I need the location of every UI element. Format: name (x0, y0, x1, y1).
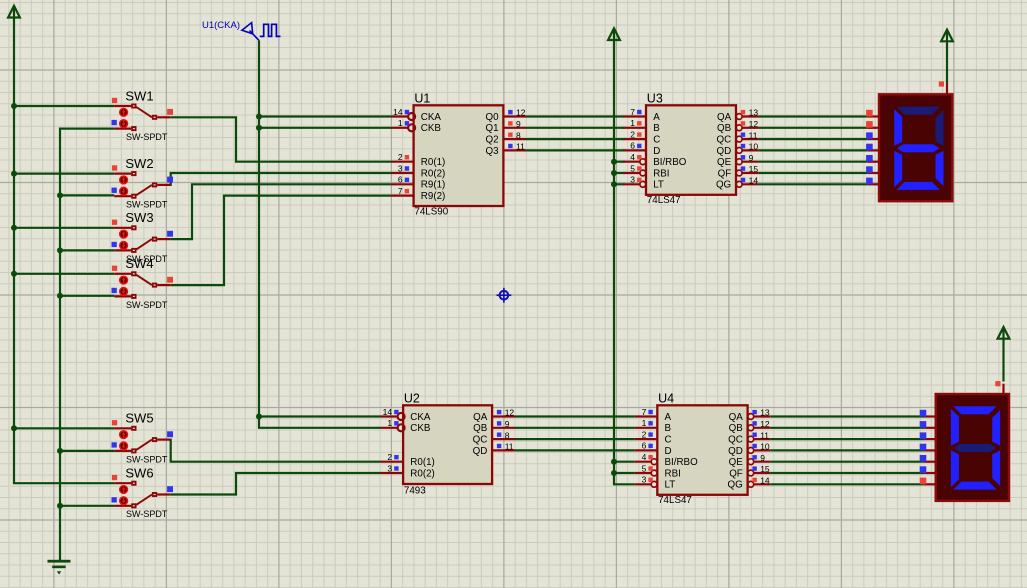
svg-text:SW5: SW5 (125, 411, 153, 426)
svg-text:10: 10 (749, 142, 759, 152)
DS2 segment pin b (920, 421, 936, 428)
U4 pin 14 (QG) right (728, 476, 771, 491)
svg-text:Q3: Q3 (486, 146, 500, 157)
svg-text:QG: QG (716, 180, 731, 191)
svg-text:14: 14 (749, 176, 759, 186)
SW1 label (125, 88, 153, 103)
svg-text:5: 5 (642, 463, 647, 473)
svg-text:U1: U1 (414, 91, 430, 105)
svg-text:1: 1 (642, 418, 647, 428)
U3 pin 1 (B) left (623, 118, 660, 134)
U2 value label 7493 (404, 486, 426, 497)
svg-text:QB: QB (473, 423, 488, 434)
SW1 type label SW-SPDT (126, 132, 168, 142)
junction dots on ground rail (57, 192, 63, 508)
wire: U4 QC to display DS2 (770, 438, 924, 440)
svg-text:12: 12 (760, 419, 770, 429)
svg-text:10: 10 (760, 442, 770, 452)
junction dots on clock net (256, 114, 262, 420)
U1 pin 7 (R9(2)) left (391, 186, 445, 202)
wire: ground to SW3 bottom contact (60, 249, 114, 251)
IC U1 (74LS90) body (414, 105, 504, 206)
wire: U3 QD to display DS1 (759, 149, 868, 151)
svg-text:14: 14 (760, 476, 770, 486)
svg-text:R9(1): R9(1) (421, 180, 446, 191)
SW6 type label SW-SPDT (126, 509, 168, 519)
power symbol VCC arrow (left rail) (8, 6, 20, 18)
svg-text:U2: U2 (404, 391, 420, 405)
U4 pin 2 (C) left (635, 429, 672, 445)
svg-text:R0(2): R0(2) (410, 468, 435, 479)
U3 pin 14 (QG) right (716, 176, 759, 191)
wire: power to SW5 top contact (14, 427, 114, 429)
wire: power to SW3 top contact (14, 227, 114, 229)
U1 pin 14 (CKA) left (391, 107, 441, 123)
svg-text:QE: QE (717, 157, 732, 168)
DS1 segment pin d (866, 144, 879, 151)
U4 pin 7 (A) left (635, 407, 672, 423)
svg-text:14: 14 (383, 407, 393, 417)
svg-text:A: A (665, 412, 672, 423)
SW5 actuator buttons (120, 431, 128, 450)
svg-text:2: 2 (642, 429, 647, 439)
svg-text:7: 7 (398, 186, 403, 196)
svg-text:C: C (665, 435, 672, 446)
U3 value label 74LS47 (647, 195, 681, 206)
svg-text:12: 12 (516, 108, 526, 118)
wire: U1 Q3-D to U3 (526, 149, 624, 151)
clock source wedge symbol (242, 23, 259, 41)
svg-text:74LS90: 74LS90 (414, 207, 448, 218)
svg-text:14: 14 (393, 107, 403, 117)
U3 pin 11 (QC) right (716, 130, 758, 145)
SW4 logic state markers (112, 266, 174, 293)
svg-text:9: 9 (749, 153, 754, 163)
svg-text:B: B (665, 423, 672, 434)
svg-text:SW-SPDT: SW-SPDT (126, 200, 168, 210)
SW3 actuator buttons (120, 230, 128, 249)
wire: ground to SW2 bottom contact (60, 194, 114, 196)
svg-text:QA: QA (717, 112, 732, 123)
svg-text:A: A (653, 112, 660, 123)
svg-text:3: 3 (630, 175, 635, 185)
U4 pin 1 (B) left (635, 418, 672, 434)
svg-text:U1(CKA): U1(CKA) (202, 20, 240, 31)
U3 pin 3 (LT) left (623, 175, 664, 191)
svg-text:1: 1 (398, 118, 403, 128)
SW6 logic state markers (112, 475, 174, 503)
svg-text:1: 1 (387, 418, 392, 428)
wire: SW1 pole to U1 R0(1) (170, 117, 391, 161)
U4 pin 3 (LT) left (635, 475, 676, 491)
wire: U2 QB-B to U4 (515, 427, 635, 429)
DS2 common anode pin (995, 381, 1003, 394)
svg-text:QG: QG (728, 480, 743, 491)
SW5 label (125, 411, 153, 426)
DS1 segment pin b (866, 121, 879, 128)
svg-text:11: 11 (749, 130, 758, 140)
U4 pin 13 (QA) right (729, 408, 771, 423)
svg-text:5: 5 (630, 163, 635, 173)
svg-text:BI/RBO: BI/RBO (653, 157, 687, 168)
svg-text:74LS47: 74LS47 (647, 195, 681, 206)
DS2 segment pin e (920, 455, 936, 462)
wire: ground to SW6 bottom contact (60, 505, 114, 507)
wire: U4 QF to display DS2 (770, 472, 924, 474)
svg-text:QB: QB (717, 123, 732, 134)
U3 pin 4 (BI/RBO) left (623, 152, 686, 168)
wire: clock to U1 CKA (259, 115, 391, 117)
svg-text:11: 11 (505, 442, 514, 452)
U3 pin 5 (RBI) left (623, 163, 669, 179)
svg-text:13: 13 (749, 108, 759, 118)
clock source square-wave glyph (260, 24, 281, 36)
DS2 digit segments (951, 406, 1000, 489)
svg-text:4: 4 (642, 452, 647, 462)
power symbol VCC arrow (display DS2) (998, 327, 1010, 339)
svg-text:SW2: SW2 (125, 156, 153, 171)
U1 pin 9 (Q1) right (486, 119, 526, 134)
svg-text:9: 9 (760, 453, 765, 463)
wire: ground to SW4 bottom contact (60, 295, 114, 297)
U4 pin 4 (BI/RBO) left (635, 452, 698, 468)
wire: power to DS1 common (946, 41, 948, 84)
power symbol VCC arrow (middle rail) (608, 28, 620, 40)
U4 value label 74LS47 (658, 495, 692, 506)
U3 pin 10 (QD) right (716, 142, 758, 157)
IC U3 (74LS47) body (646, 105, 736, 195)
svg-text:15: 15 (760, 464, 770, 474)
IC U2 (7493) body (403, 405, 492, 484)
svg-text:9: 9 (516, 119, 521, 129)
svg-text:2: 2 (630, 129, 635, 139)
svg-text:2: 2 (398, 152, 403, 162)
wire: U3 QC to display DS1 (759, 138, 868, 140)
U1 pin 8 (Q2) right (486, 130, 526, 145)
wire: U2 QC-C to U4 (515, 438, 635, 440)
ground symbol (48, 560, 71, 575)
svg-text:CKB: CKB (421, 123, 442, 134)
U2 pin 1 (CKB) left (381, 418, 431, 434)
wire: power to SW1 top contact (14, 105, 114, 107)
7-segment display DS1 body (879, 94, 952, 201)
svg-text:74LS47: 74LS47 (658, 495, 692, 506)
DS1 segment pin a (866, 110, 879, 117)
IC U4 (74LS47) body (657, 405, 747, 495)
wire: U4 QG to display DS2 (770, 483, 924, 485)
U4 pin 10 (QD) right (728, 442, 770, 457)
SW2 actuator buttons (120, 176, 128, 195)
svg-text:QD: QD (728, 446, 743, 457)
svg-text:C: C (653, 135, 660, 146)
wire: U2 QA-A to U4 (515, 415, 635, 417)
svg-text:7: 7 (642, 407, 647, 417)
wire: rail to U3 RBI (614, 172, 624, 174)
DS2 segment pin d (920, 444, 936, 451)
svg-text:8: 8 (516, 130, 521, 140)
SW4 label (125, 256, 153, 271)
svg-text:SW-SPDT: SW-SPDT (126, 509, 168, 519)
wire: power to SW2 top contact (14, 173, 114, 175)
svg-text:QA: QA (473, 412, 488, 423)
wire: rail to U4 RBI (614, 472, 635, 474)
switch SW2 (SW-SPDT) (114, 171, 170, 199)
wire: U4 QA to display DS2 (770, 415, 924, 417)
svg-text:3: 3 (398, 163, 403, 173)
wire: U3 QF to display DS1 (759, 172, 868, 174)
svg-text:SW-SPDT: SW-SPDT (126, 300, 168, 310)
U4 pin 12 (QB) right (729, 419, 771, 434)
svg-text:Q2: Q2 (486, 135, 499, 146)
svg-text:QF: QF (718, 168, 732, 179)
U4 reference label (658, 391, 674, 405)
DS2 segment pin g (920, 478, 936, 485)
svg-text:D: D (653, 146, 660, 157)
U1 pin 3 (R0(2)) left (391, 163, 445, 179)
svg-text:13: 13 (760, 408, 770, 418)
svg-text:CKA: CKA (421, 112, 442, 123)
wire: left power rail x=14 down to SW6 top (14, 18, 114, 484)
U2 pin 9 (QB) right (473, 419, 515, 434)
svg-text:12: 12 (505, 408, 515, 418)
svg-text:CKB: CKB (410, 423, 431, 434)
svg-text:7493: 7493 (404, 486, 426, 497)
DS1 segment pin c (866, 132, 879, 139)
U1 pin 2 (R0(1)) left (391, 152, 445, 168)
svg-text:QC: QC (728, 435, 743, 446)
origin crosshair marker (497, 288, 512, 303)
DS2 segment pin c (920, 432, 936, 439)
switch SW4 (SW-SPDT) (114, 271, 170, 299)
svg-text:R0(1): R0(1) (421, 157, 446, 168)
SW5 logic state markers (112, 420, 174, 447)
svg-text:B: B (653, 123, 660, 134)
U3 pin 13 (QA) right (717, 108, 759, 123)
svg-text:QD: QD (473, 446, 488, 457)
svg-text:LT: LT (653, 180, 664, 191)
U3 pin 7 (A) left (623, 107, 660, 123)
junction dots on left power rail (11, 103, 17, 431)
svg-text:LT: LT (665, 480, 676, 491)
svg-text:3: 3 (642, 475, 647, 485)
svg-text:QD: QD (716, 146, 731, 157)
SW3 type label SW-SPDT (126, 254, 168, 264)
SW5 type label SW-SPDT (126, 454, 168, 464)
svg-text:R0(2): R0(2) (421, 168, 446, 179)
svg-text:QE: QE (729, 457, 744, 468)
wire: power to DS2 common (1002, 339, 1004, 382)
U3 pin 2 (C) left (623, 129, 660, 145)
U2 pin 14 (CKA) left (381, 407, 431, 423)
wire: rail to U3 LT (614, 183, 624, 185)
U3 reference label (647, 91, 663, 105)
wire: power to SW4 top contact (14, 273, 114, 275)
U4 pin 11 (QC) right (728, 430, 770, 445)
wire: SW3 pole to U1 R9(1) (170, 184, 391, 239)
7-segment display DS2 body (936, 394, 1009, 501)
wire: U3 QB to display DS1 (759, 127, 868, 129)
svg-text:QC: QC (716, 135, 731, 146)
svg-text:QA: QA (729, 412, 744, 423)
svg-text:QB: QB (729, 423, 744, 434)
svg-text:R9(2): R9(2) (421, 191, 446, 202)
wire: SW4 pole to U1 R9(2) (170, 196, 391, 286)
clock source label U1(CKA) (202, 20, 240, 31)
svg-text:3: 3 (387, 463, 392, 473)
svg-text:11: 11 (760, 430, 769, 440)
svg-text:SW4: SW4 (125, 256, 153, 271)
U3 pin 12 (QB) right (717, 119, 759, 134)
U1 pin 6 (R9(1)) left (391, 175, 445, 191)
svg-text:QC: QC (473, 435, 488, 446)
U2 pin 3 (R0(2)) left (381, 463, 435, 479)
wire: SW5 pole to U2 R0(1) (170, 440, 380, 462)
svg-text:U3: U3 (647, 91, 663, 105)
SW4 type label SW-SPDT (126, 300, 168, 310)
wire: U4 QE to display DS2 (770, 461, 924, 463)
power symbol VCC arrow (display DS1) (941, 30, 953, 42)
SW1 logic state markers (112, 98, 174, 125)
U1 pin 12 (Q0) right (486, 108, 526, 123)
svg-text:QF: QF (729, 468, 743, 479)
SW3 logic state markers (112, 220, 174, 248)
junction dots on middle power rail (611, 159, 617, 476)
DS1 segment pin g (866, 178, 879, 185)
SW6 label (125, 466, 153, 481)
wire: U4 QD to display DS2 (770, 449, 924, 451)
U2 pin 2 (R0(1)) left (381, 452, 435, 468)
wire: U1 Q2-C to U3 (526, 138, 624, 140)
svg-text:CKA: CKA (410, 412, 431, 423)
U4 pin 6 (D) left (635, 441, 672, 457)
wire: clock net vertical to U2 CKB (259, 40, 381, 428)
U2 pin 12 (QA) right (473, 408, 515, 423)
wire: U3 QG to display DS1 (759, 183, 868, 185)
svg-text:Q1: Q1 (486, 123, 499, 134)
svg-text:SW1: SW1 (125, 88, 153, 103)
svg-text:11: 11 (516, 142, 525, 152)
DS2 segment pin a (920, 410, 936, 417)
U1 pin 1 (CKB) left (391, 118, 441, 134)
wire: SW2 pole to U1 R0(2) (170, 173, 391, 185)
svg-text:RBI: RBI (665, 468, 681, 479)
wire: ground to SW5 bottom contact (60, 450, 114, 452)
wire: ground rail x=60 from SW1 bottom down to ground (60, 129, 114, 561)
DS1 common anode pin (939, 81, 947, 94)
svg-text:2: 2 (387, 452, 392, 462)
U3 pin 15 (QF) right (718, 164, 759, 179)
svg-text:8: 8 (505, 430, 510, 440)
svg-text:9: 9 (505, 419, 510, 429)
SW4 actuator buttons (120, 276, 128, 295)
U4 pin 15 (QF) right (729, 464, 770, 479)
svg-text:RBI: RBI (653, 168, 669, 179)
switch SW6 (SW-SPDT) (114, 481, 170, 509)
SW1 actuator buttons (120, 108, 128, 127)
switch SW1 (SW-SPDT) (114, 104, 170, 132)
U3 pin 6 (D) left (623, 141, 660, 157)
wire: U1 Q1-B to U3 (526, 127, 624, 129)
wire: rail to U4 BI/RBO (614, 461, 635, 463)
SW3 label (125, 210, 153, 225)
U2 pin 11 (QD) right (473, 442, 515, 457)
wire: clock to U1 CKB (259, 127, 391, 129)
svg-text:R0(1): R0(1) (410, 457, 435, 468)
svg-text:SW6: SW6 (125, 466, 153, 481)
svg-text:7: 7 (630, 107, 635, 117)
svg-text:6: 6 (642, 441, 647, 451)
wire: SW6 pole to U2 R0(2) (170, 473, 380, 495)
svg-text:4: 4 (630, 152, 635, 162)
wire: middle power rail x=614 down to U4 LT (614, 40, 635, 484)
wire: clock to U2 CKA (259, 415, 381, 417)
DS1 segment pin e (866, 155, 879, 162)
svg-text:SW3: SW3 (125, 210, 153, 225)
svg-text:15: 15 (749, 164, 759, 174)
wire: U4 QB to display DS2 (770, 427, 924, 429)
wire: U2 QD-D to U4 (515, 449, 635, 451)
SW6 actuator buttons (120, 486, 128, 505)
wire: U3 QE to display DS1 (759, 161, 868, 163)
U4 pin 9 (QE) right (729, 453, 771, 468)
svg-text:SW-SPDT: SW-SPDT (126, 454, 168, 464)
svg-text:6: 6 (630, 141, 635, 151)
svg-text:BI/RBO: BI/RBO (665, 457, 699, 468)
wire: U3 QA to display DS1 (759, 115, 868, 117)
U3 pin 9 (QE) right (717, 153, 759, 168)
svg-text:1: 1 (630, 118, 635, 128)
DS1 segment pin f (866, 166, 879, 173)
switch SW5 (SW-SPDT) (114, 426, 170, 454)
U2 pin 8 (QC) right (473, 430, 515, 445)
SW2 logic state markers (112, 165, 174, 193)
DS1 digit segments (894, 107, 943, 190)
svg-text:U4: U4 (658, 391, 674, 405)
U1 value label 74LS90 (414, 207, 448, 218)
U4 pin 5 (RBI) left (635, 463, 681, 479)
switch SW3 (SW-SPDT) (114, 225, 170, 253)
svg-text:Q0: Q0 (486, 112, 500, 123)
wire: U1 Q0-A to U3 (526, 115, 624, 117)
U2 reference label (404, 391, 420, 405)
SW2 label (125, 156, 153, 171)
svg-text:SW-SPDT: SW-SPDT (126, 132, 168, 142)
svg-text:6: 6 (398, 175, 403, 185)
wire: rail to U3 BI/RBO (614, 161, 624, 163)
svg-text:D: D (665, 446, 672, 457)
svg-text:12: 12 (749, 119, 759, 129)
U1 reference label (414, 91, 430, 105)
U1 pin 11 (Q3) right (486, 142, 526, 157)
SW2 type label SW-SPDT (126, 200, 168, 210)
DS2 segment pin f (920, 466, 936, 473)
